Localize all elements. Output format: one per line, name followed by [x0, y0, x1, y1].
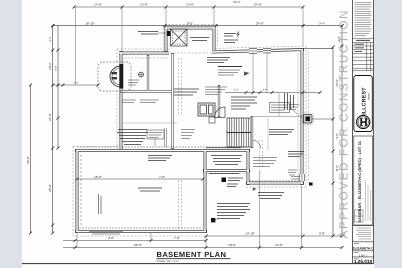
svg-text:10'-0": 10'-0" [228, 243, 236, 247]
note sloped wall right [140, 100, 159, 103]
dim left chain 2 [57, 26, 59, 148]
note post stack [217, 204, 250, 219]
boxed note above room wall [147, 130, 164, 139]
note rigid insul [89, 232, 123, 235]
note concrete slab upper [207, 58, 230, 63]
note mid-room [211, 156, 242, 165]
note egress upper [289, 105, 299, 110]
svg-text:14'-10": 14'-10" [245, 232, 254, 236]
leader egress well [312, 118, 333, 120]
svg-text:14'-8": 14'-8" [186, 3, 194, 7]
tb sheet box [353, 251, 374, 258]
dim bottom chain 3 [63, 247, 342, 249]
dim right chain 2 [332, 47, 334, 236]
left margin strip [0, 0, 22, 268]
future bath wall lines [278, 93, 280, 116]
vent marker SE [309, 183, 313, 186]
footing bump-out top [164, 25, 218, 53]
svg-text:8'-0": 8'-0" [187, 21, 193, 25]
dim left chain 3 [30, 85, 32, 233]
wall north-left [119, 52, 169, 55]
svg-text:24'-0": 24'-0" [256, 21, 264, 25]
dim top chain 2 [53, 25, 342, 27]
note perim drain [148, 156, 172, 161]
note stair clearance [231, 97, 257, 109]
wall white centerlines (double-line look) [76, 27, 303, 232]
wall room divider [204, 149, 207, 233]
lightning bolt symbol [237, 32, 239, 37]
wall east [301, 48, 304, 185]
ticks bottom chain1 [205, 235, 344, 238]
footing room west+bottom [73, 146, 208, 236]
wall south-right [246, 182, 304, 185]
note unexcavated big [138, 188, 162, 191]
wall mid-room right [247, 150, 250, 185]
wall west upper [120, 51, 123, 150]
bottom sheet border [22, 263, 374, 265]
svg-text:3'-4": 3'-4" [319, 21, 325, 25]
wall room bottom [75, 230, 207, 233]
note 5/8 gwb [224, 40, 238, 43]
ticks left chain1 [51, 24, 54, 234]
tb project box [354, 136, 373, 225]
footing south-right [246, 186, 306, 188]
window well west (dashed D-shape with ladder) [98, 62, 131, 91]
door arc lower stair [253, 140, 261, 148]
footing north-left [117, 48, 169, 50]
wall north-right [212, 50, 304, 53]
wall stair right [251, 116, 253, 148]
note stoop interior [190, 38, 209, 41]
svg-text:26'-8": 26'-8" [134, 243, 142, 247]
note opt golf cart [209, 173, 239, 175]
ticks top chain1 [73, 6, 305, 9]
dim left chain 1 [52, 26, 54, 233]
footing room top [73, 146, 119, 148]
svg-text:APPROVED FOR CONSTRUCTION: APPROVED FOR CONSTRUCTION [337, 9, 351, 239]
footing mid-room bottom [203, 173, 250, 175]
dim interior upper-right [225, 92, 320, 94]
ticks upper-right dim [245, 91, 322, 94]
tb notes text [355, 3, 372, 36]
tb job box [353, 257, 374, 264]
gwb line inside east wall [297, 53, 299, 182]
note future flooring block [117, 130, 148, 145]
dimension texts [26, 0, 341, 247]
note poured wall block [253, 158, 277, 167]
dim bottom chain 1 [206, 235, 342, 237]
tb address block [353, 226, 374, 239]
ticks bottom chain3 [74, 246, 344, 249]
svg-text:7'-0": 7'-0" [174, 236, 180, 240]
extension lines [76, 7, 304, 248]
furnace / mech rect [198, 103, 215, 123]
window E2 lower [299, 174, 304, 181]
leader if-basement flag [244, 72, 250, 77]
tb title box [352, 242, 374, 251]
dim connector NE corner [304, 48, 333, 50]
wall chase horizontal [120, 90, 173, 92]
note mid block [181, 130, 195, 139]
wall mid-room bottom [203, 169, 250, 172]
note well vent [288, 170, 297, 175]
svg-text:14'-0": 14'-0" [275, 243, 283, 247]
note pour slab [258, 193, 284, 199]
svg-text:9'-8": 9'-8" [108, 236, 114, 240]
electric meter black box [167, 31, 171, 36]
svg-text:7'-6": 7'-6" [159, 175, 165, 179]
note r-value vertical [285, 93, 294, 110]
ticks left chain2 [57, 49, 60, 150]
note gas/elec vent [224, 34, 236, 37]
tb table [353, 38, 374, 70]
borders [353, 0, 374, 264]
note sloped wall left [122, 100, 136, 103]
leader electric meter [158, 32, 166, 34]
thin beam line [122, 122, 177, 124]
note egress lower [288, 152, 304, 157]
door arc at stair [215, 107, 226, 118]
svg-text:24'-0": 24'-0" [254, 3, 262, 7]
svg-text:25'-8": 25'-8" [48, 184, 52, 192]
dim interior room [77, 178, 203, 180]
dim right chain 3 [341, 26, 343, 236]
wall room west [76, 149, 79, 233]
dimension tick marks [29, 6, 344, 250]
dashed beam pair [260, 140, 263, 168]
svg-text:homes: homes [367, 92, 370, 100]
note conc pad [227, 178, 243, 187]
ticks interior room dim [76, 178, 205, 181]
note stair head [205, 87, 227, 95]
svg-text:56'-2": 56'-2" [233, 0, 240, 4]
svg-text:36'-8": 36'-8" [26, 156, 30, 164]
dashed interior duct lines [179, 58, 182, 116]
note if-basement [218, 66, 242, 68]
logo circled H [357, 115, 370, 128]
svg-text:21'-0": 21'-0" [48, 113, 52, 121]
dashed posts line in big room [179, 180, 182, 231]
svg-text:15'-8": 15'-8" [140, 3, 148, 7]
wall bump-out stoop [166, 28, 214, 52]
post black square big room [211, 218, 215, 222]
svg-text:BASEMENT PLAN: BASEMENT PLAN [157, 250, 227, 259]
note electric meter [138, 32, 158, 35]
insulation tick hatch inside room walls [78, 146, 246, 229]
svg-text:8'-0": 8'-0" [54, 65, 57, 70]
door frame lines [165, 128, 167, 147]
window N1 [249, 48, 257, 53]
svg-text:5'-2": 5'-2" [49, 36, 52, 41]
svg-text:3'-0": 3'-0" [74, 82, 79, 85]
svg-text:1.25.018: 1.25.018 [354, 259, 373, 264]
ticks left chain3 [29, 84, 32, 235]
note rotated slope [99, 194, 102, 214]
dim bottom chain 2 [63, 240, 206, 242]
areaway X-box inside bump-out [171, 29, 188, 46]
egress window well east (dark box) [302, 113, 314, 125]
svg-text:SCALE: 1/4" = 1'-0": SCALE: 1/4" = 1'-0" [157, 260, 180, 263]
ticks bottom chain2 [74, 239, 208, 242]
staircase [227, 118, 251, 147]
svg-text:5'-4": 5'-4" [234, 89, 239, 92]
leader post [214, 218, 217, 221]
svg-text:ELIZABETH C: ELIZABETH C [352, 246, 374, 250]
wall center bearing [171, 53, 173, 149]
right margin strip [374, 0, 402, 268]
note opt door [206, 147, 241, 149]
window N2 [263, 48, 271, 53]
svg-text:10'-2": 10'-2" [48, 62, 52, 70]
svg-text:14'-0": 14'-0" [94, 3, 102, 7]
column circle symbol [139, 72, 144, 77]
wall stair top-left [218, 85, 220, 117]
thin closet line [267, 118, 269, 150]
svg-text:3'-8": 3'-8" [319, 232, 325, 236]
dim to window well [53, 84, 98, 86]
note small chase [128, 80, 139, 85]
note provide gwb [269, 130, 294, 135]
footing west upper [116, 49, 118, 150]
dim top chain 1 [74, 6, 303, 8]
note window lower east [291, 177, 300, 180]
note furnace relocated [174, 89, 199, 95]
svg-text:SANDBAR - ELIZABETH-C (SPEC) -: SANDBAR - ELIZABETH-C (SPEC) - LOT 31 [358, 141, 362, 223]
tb logo box [354, 76, 373, 132]
title BASEMENT PLAN [157, 250, 231, 263]
boxed label hang furnace [270, 103, 290, 113]
ticks right chain3 [341, 24, 344, 237]
wall room top [75, 149, 250, 152]
svg-text:16'-10": 16'-10" [85, 21, 94, 25]
ticks well dim [62, 84, 100, 87]
ticks right chain2 [332, 46, 335, 238]
hatch ticks above south wall [250, 180, 298, 182]
dashed line below north-left wall [124, 57, 168, 59]
concrete pad black square [222, 178, 227, 183]
footing east [306, 46, 309, 187]
svg-text:16'-0": 16'-0" [94, 175, 102, 179]
footing north-right [212, 46, 306, 49]
svg-text:3'-0": 3'-0" [263, 89, 268, 92]
ticks top chain2 [52, 24, 344, 27]
wall chase vertical [147, 55, 149, 92]
dashed across bump opening [170, 52, 212, 54]
